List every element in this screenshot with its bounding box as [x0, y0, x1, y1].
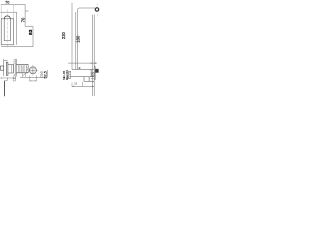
cartridge vertical x91.1 — [90, 69, 92, 76]
riser pipe with corner to shower arm — [78, 8, 95, 69]
circle dim extensions — [30, 76, 37, 82]
circle dim arrows — [30, 79, 37, 82]
branch extension y11 — [25, 10, 29, 12]
wall plate front view — [1, 19, 13, 45]
center cross solid — [31, 69, 35, 73]
dim jog — [5, 78, 8, 81]
dim line top horizontal — [1, 3, 25, 5]
dim ticks for 2 — [80, 67, 81, 69]
cartridge inner circle — [31, 68, 36, 73]
wall lines — [15, 59, 16, 77]
crosshair horizontal — [28, 69, 39, 71]
extension line y12.2 — [0, 11, 16, 13]
extension line y60.4 — [4, 59, 8, 61]
lower housing lines — [84, 77, 94, 82]
section leader (thick dark) — [3, 81, 5, 97]
plate corner extension lines — [1, 5, 13, 19]
inner lines — [26, 65, 28, 72]
bottom dim line — [72, 85, 94, 87]
valve mid line — [71, 76, 94, 78]
handle cylinder sides — [4, 19, 10, 41]
valve top line — [72, 68, 94, 70]
wall hatching top — [13, 59, 15, 64]
svg-text:52,5: 52,5 — [43, 71, 47, 78]
outlet centerline (dash) — [96, 3, 98, 17]
dim ticks — [2, 77, 16, 79]
bottom outlet stub — [23, 73, 26, 77]
svg-text:83: 83 — [28, 29, 34, 35]
in-wall hatched body — [92, 72, 94, 76]
wall line rear — [92, 15, 94, 96]
cartridge circle — [29, 67, 36, 74]
union nut hatch 1 — [22, 65, 24, 73]
svg-text:70: 70 — [21, 17, 26, 22]
in-wall valve body — [16, 65, 28, 73]
trim plate side — [93, 67, 96, 80]
dim extension x72 — [71, 83, 73, 87]
body mid divider — [10, 65, 12, 74]
handle side (dark) — [95, 69, 98, 73]
riser pipe line x75.8 — [75, 12, 77, 69]
left end cap (hatched) — [68, 71, 70, 78]
centerline (dash-dot) — [7, 10, 9, 48]
svg-text:220: 220 — [61, 31, 66, 39]
dim chain right: down, across, down — [25, 4, 33, 46]
lever handle grip — [1, 66, 4, 70]
circle dim line — [30, 80, 37, 82]
valve body dividers — [18, 65, 28, 73]
bottom extension line — [1, 46, 33, 48]
svg-text:70: 70 — [5, 1, 9, 5]
dim extension tick x82.5 — [82, 82, 84, 87]
shower outlet ring — [95, 8, 98, 11]
bottom port side view — [13, 76, 15, 81]
union nut hatch 2 — [26, 65, 28, 72]
wall depth dim arrows — [91, 63, 96, 64]
lower dim line y78 — [0, 77, 16, 79]
escutcheon plate side — [6, 62, 8, 75]
background — [0, 0, 100, 100]
long dim line x72 — [71, 3, 73, 70]
bottom dim arrows — [72, 86, 94, 87]
handle dome — [4, 16, 10, 19]
wall hatching bottom — [13, 74, 15, 76]
wall depth dim line — [68, 62, 97, 64]
crosshair vertical — [32, 65, 34, 77]
lever arm vertical — [3, 59, 5, 76]
mixer body side — [8, 65, 14, 74]
dim line vertical x16.6 — [16, 12, 18, 45]
wall line front — [93, 15, 95, 96]
base line under view — [20, 76, 47, 78]
dim line vertical x47.2 — [46, 70, 48, 77]
lower trim lines — [91, 79, 95, 82]
